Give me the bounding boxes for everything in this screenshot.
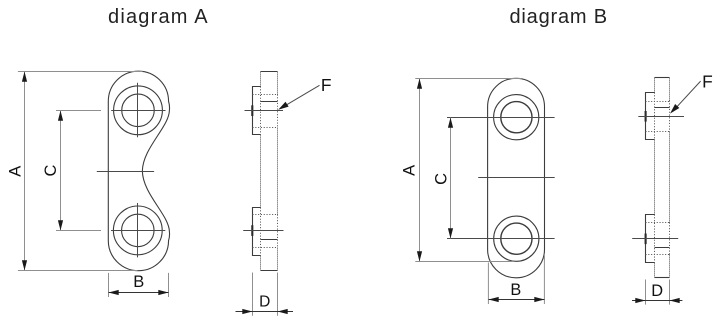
- svg-text:diagram A: diagram A: [108, 6, 209, 28]
- hole A top inner circle: [122, 94, 155, 127]
- dimension A line: [24, 72, 26, 271]
- side B plate left edge solid: [654, 78, 656, 278]
- side A bottom boss: [253, 208, 261, 256]
- dimension A extension line top (B): [415, 78, 521, 80]
- side A top boss: [253, 87, 261, 135]
- hole A top horizontal crosshair: [111, 110, 165, 112]
- side A top hole centerline: [245, 110, 284, 112]
- svg-text:B: B: [510, 281, 521, 299]
- hole A top vertical crosshair: [137, 83, 139, 137]
- dimension B extension line right: [168, 273, 170, 297]
- dimension D arrow right (B): [670, 298, 680, 303]
- dimension A arrow top: [22, 72, 27, 82]
- hole B bottom crosshair: [447, 238, 555, 240]
- dimension C extension line top: [56, 110, 101, 112]
- side B plate right edge solid: [669, 78, 671, 278]
- svg-text:F: F: [321, 75, 332, 95]
- dimension A arrow bottom: [22, 260, 27, 270]
- svg-text:A: A: [6, 166, 24, 177]
- dimension B extension line left: [108, 273, 110, 297]
- side B top boss: [646, 93, 655, 140]
- dimension C extension line bottom: [56, 230, 101, 232]
- dimension C arrow bottom (B): [448, 228, 453, 238]
- side A plate left edge hidden behind bosses: [260, 87, 262, 256]
- dimension B arrow left: [109, 290, 119, 295]
- side A plate right edge solid: [277, 72, 279, 271]
- hole A bottom vertical crosshair: [137, 203, 139, 257]
- dimension A extension line bottom: [18, 270, 138, 272]
- dimension C line (B): [450, 118, 452, 239]
- side B top bush line: [655, 107, 670, 109]
- dimension D arrow left (A): [242, 309, 252, 314]
- mid centerline front view A: [97, 171, 154, 173]
- dimension D arrow left (B): [635, 298, 645, 303]
- side B top pin end bar: [645, 111, 647, 122]
- side B bottom pin end bar: [645, 234, 647, 245]
- svg-text:D: D: [259, 293, 270, 310]
- hole A top outer circle: [114, 86, 163, 135]
- side B bottom bush line: [655, 247, 670, 249]
- dimension B line: [109, 292, 169, 294]
- dimension D extension line right (B): [669, 280, 671, 305]
- F leader arrowhead (diagram B): [670, 104, 679, 114]
- dimension C line: [60, 111, 62, 231]
- dimension A extension line top: [18, 71, 143, 73]
- hole A bottom outer circle: [113, 206, 162, 255]
- svg-text:A: A: [401, 165, 419, 176]
- side A top bore hidden lines: [253, 95, 278, 128]
- side B top hole centerline: [638, 116, 684, 118]
- side A top bush line: [261, 101, 278, 103]
- svg-text:C: C: [42, 164, 60, 176]
- dimension D line (B): [632, 300, 682, 302]
- dimension B extension line left (B): [487, 263, 489, 305]
- dimension A extension line bottom (B): [415, 261, 514, 263]
- mid centerline front view B: [478, 177, 555, 179]
- side A plate top edge: [261, 71, 278, 73]
- dimension C arrow top (B): [448, 118, 453, 128]
- svg-text:C: C: [432, 173, 450, 185]
- F leader line (diagram B): [672, 81, 700, 112]
- side B plate right edge hidden at bores: [669, 101, 671, 255]
- hole B top inner circle: [501, 102, 532, 133]
- plate outline front view A: [108, 71, 169, 271]
- side B bottom hole centerline: [632, 238, 678, 240]
- side A bottom bush line: [261, 239, 278, 241]
- dimension A arrow bottom (B): [417, 251, 422, 261]
- hole A bottom horizontal crosshair: [111, 230, 165, 232]
- side A bottom bore hidden lines: [253, 215, 278, 248]
- svg-text:diagram B: diagram B: [510, 6, 608, 28]
- side B plate top edge: [655, 77, 670, 79]
- side A top pin end bar: [251, 105, 253, 116]
- svg-text:F: F: [702, 72, 713, 92]
- dimension C arrow bottom: [58, 220, 63, 230]
- dimension D extension line right (A): [277, 273, 279, 316]
- dimension D arrow right (A): [278, 309, 288, 314]
- side A plate right edge hidden at bores: [277, 95, 279, 248]
- hole A bottom inner circle: [122, 214, 155, 247]
- dimension D extension line left (B): [645, 280, 647, 305]
- side B bottom boss: [646, 215, 655, 263]
- dimension B arrow right (B): [534, 297, 544, 302]
- side B bottom bore hidden lines: [646, 223, 670, 255]
- F leader line (diagram A): [281, 85, 320, 108]
- dimension D extension line left (A): [252, 273, 254, 316]
- dimension A line (B): [419, 79, 421, 262]
- dimension B line (B): [489, 299, 545, 301]
- side B plate left edge hidden behind bosses: [654, 93, 656, 263]
- svg-text:D: D: [651, 282, 663, 300]
- hole B bottom inner circle: [501, 223, 532, 254]
- dimension B arrow right: [158, 290, 168, 295]
- side B plate bottom edge: [655, 277, 670, 279]
- hole B top outer circle: [494, 95, 539, 140]
- dimension C arrow top: [58, 111, 63, 121]
- dimension A arrow top (B): [417, 79, 422, 89]
- side A bottom hole centerline: [243, 230, 283, 232]
- F leader arrowhead (diagram A): [278, 102, 288, 110]
- plate outline front view B (stadium): [488, 78, 545, 277]
- dimension B extension line right (B): [543, 254, 545, 304]
- svg-text:B: B: [133, 273, 144, 291]
- side A bottom pin end bar: [251, 225, 253, 236]
- dimension B arrow left (B): [489, 297, 499, 302]
- hole B bottom outer circle: [494, 216, 539, 261]
- dimension D line (A): [236, 311, 294, 313]
- side A plate bottom edge: [261, 270, 278, 272]
- side A plate left edge solid: [260, 72, 262, 271]
- hole B top crosshair: [447, 117, 555, 119]
- side B top bore hidden lines: [646, 102, 670, 132]
